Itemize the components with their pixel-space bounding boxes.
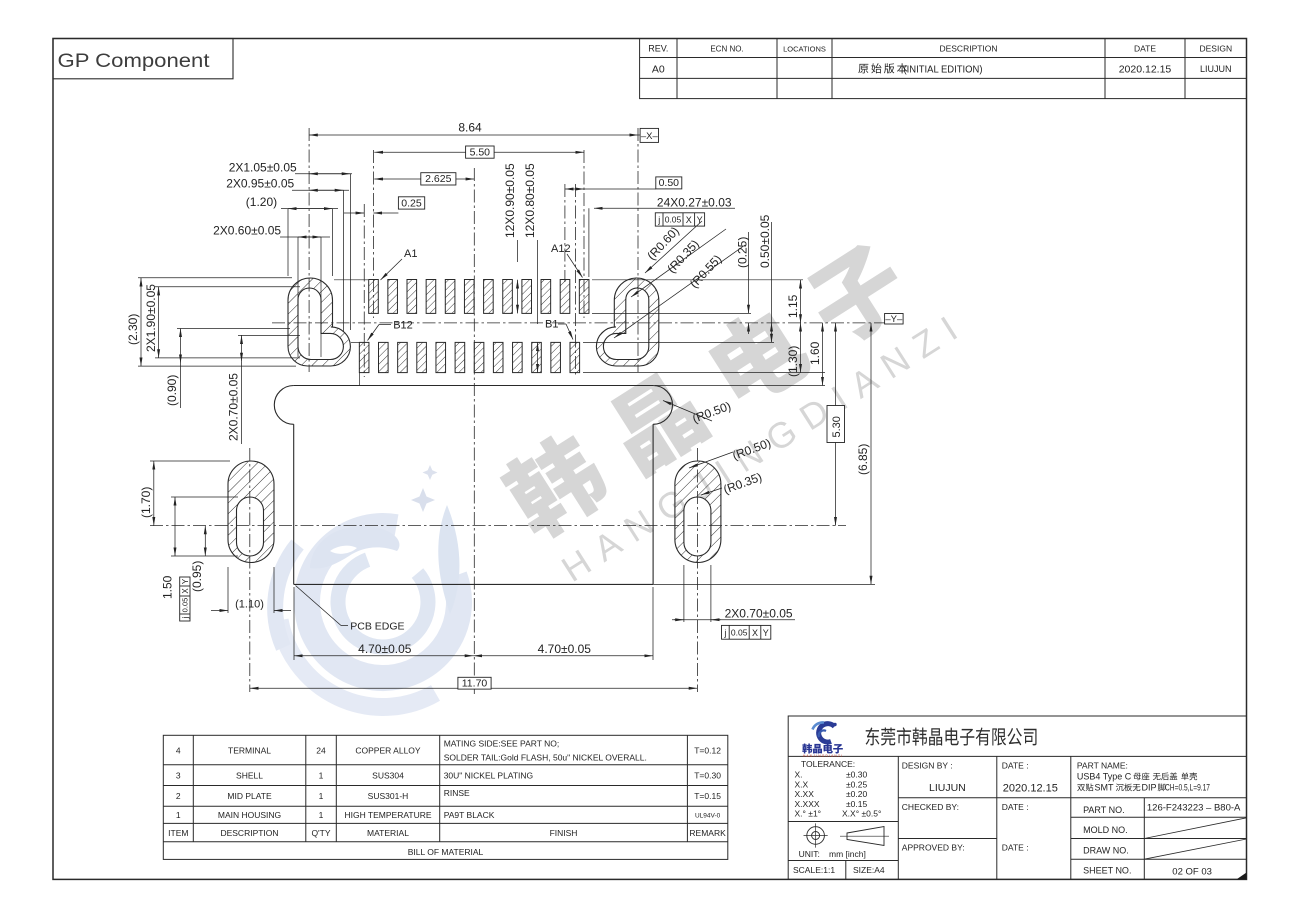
dim 0.25 pads offset [344,197,425,213]
dim 4.70 left [294,587,473,660]
dim 11.70 [250,677,698,689]
svg-text:j: j [723,628,726,638]
svg-text:SUS304: SUS304 [372,771,404,781]
svg-text:±0.25: ±0.25 [846,780,867,790]
svg-text:5.30: 5.30 [831,416,843,437]
svg-text:2X0.70±0.05: 2X0.70±0.05 [227,373,241,441]
svg-text:X: X [752,628,758,638]
svg-text:2X0.60±0.05: 2X0.60±0.05 [213,223,281,237]
svg-text:0.25: 0.25 [401,197,422,209]
pad B12 [359,342,369,372]
guide housing top ext [655,385,825,387]
feature control frame right [722,625,771,639]
svg-text:SHEET NO.: SHEET NO. [1083,866,1131,876]
leader (R0.50) bump [663,399,733,426]
svg-text:TERMINAL: TERMINAL [228,746,271,756]
pad A4 [426,280,436,314]
guide A bottom [592,312,751,314]
svg-text:X.X: X.X [795,780,809,790]
svg-text:X.: X. [795,770,803,780]
dim 2X0.95 [226,177,349,332]
pad B4 [513,342,523,372]
svg-text:DATE :: DATE : [1002,802,1029,812]
pad B10 [398,342,408,372]
svg-text:j: j [657,215,660,225]
svg-text:4.70±0.05: 4.70±0.05 [358,642,412,656]
dim 12X0.90 [503,163,518,313]
svg-text:DATE :: DATE : [1002,843,1029,853]
watermark logo flame tip [438,505,459,614]
svg-text:MID PLATE: MID PLATE [227,791,272,801]
guide B12 edge drop [358,373,360,386]
svg-text:(INITIAL EDITION): (INITIAL EDITION) [904,64,983,76]
centerline B12 [363,204,365,377]
svg-text:±0.15: ±0.15 [846,799,867,809]
guide B bottom [583,372,825,374]
dim (0.25) right [736,232,750,334]
svg-text:SUS301-H: SUS301-H [368,791,409,801]
housing bottom edge PCB cutout [294,583,653,585]
company logo small [802,722,843,758]
svg-text:(2.30): (2.30) [126,314,140,345]
shield slot right outer [596,278,658,366]
svg-text:MATING SIDE:SEE PART NO;: MATING SIDE:SEE PART NO; [444,739,560,749]
svg-text:5.50: 5.50 [470,147,491,159]
guide ext 0.60 through slot left [297,286,299,357]
pad B3 [532,342,542,372]
housing bump left R0.50 [274,386,293,425]
svg-text:2: 2 [176,791,181,801]
pad B7 [455,342,465,372]
svg-text:PART NAME:: PART NAME: [1077,761,1128,771]
leader (R0.35) leg slot [701,470,764,497]
watermark hanzi [495,233,917,546]
svg-text:DESCRIPTION: DESCRIPTION [939,44,997,54]
company name [866,727,1037,745]
svg-text:1: 1 [319,771,324,781]
svg-text:4.70±0.05: 4.70±0.05 [538,642,592,656]
pad A11 [560,280,570,314]
svg-text:24: 24 [316,746,326,756]
housing left edge [293,424,295,584]
dim 2X1.90 [144,284,300,358]
svg-text:MAIN HOUSING: MAIN HOUSING [218,810,281,820]
dim (1.10) [211,567,291,613]
svg-text:LIUJUN: LIUJUN [929,782,966,794]
svg-text:Q'TY: Q'TY [311,828,330,838]
housing right edge [652,424,654,584]
svg-text:DIP: DIP [1142,783,1157,793]
dim 0.50 right [758,214,772,342]
svg-text:2X0.70±0.05: 2X0.70±0.05 [725,607,793,621]
svg-text:(0.25): (0.25) [736,237,750,268]
pad B11 [379,342,389,372]
svg-text:(1.20): (1.20) [246,195,277,209]
svg-text:0.05: 0.05 [731,628,748,638]
dim (1.30) [786,323,801,377]
watermark logo swirl mid ring [338,560,428,647]
svg-text:A0: A0 [652,64,665,76]
mold no diagonal [1144,818,1246,839]
svg-text:j: j [181,616,190,619]
pad guide lines [298,280,825,386]
centerlines [150,128,885,694]
guide ext 0.60 through slot right [320,286,322,357]
dim 2X0.70 left [227,335,301,444]
pad B5 [493,342,503,372]
centerline vertical main [473,168,475,694]
svg-text:2X1.90±0.05: 2X1.90±0.05 [144,284,158,352]
svg-text:LIUJUN: LIUJUN [1200,64,1232,74]
dim 1.15 [786,280,801,323]
svg-text:TOLERANCE:: TOLERANCE: [801,759,855,769]
svg-text:APPROVED BY:: APPROVED BY: [902,843,965,853]
guide A top left [334,279,368,281]
centerline leg slot left [249,448,251,692]
svg-text:(1.10): (1.10) [235,599,264,611]
DIMENSIONS [126,121,903,690]
feature control frame top [655,213,704,226]
watermark logo left swoosh [275,545,297,648]
svg-text:MOLD NO.: MOLD NO. [1083,825,1128,835]
BOM table [163,735,728,859]
pad B8 [436,342,446,372]
pad B6 [474,342,484,372]
svg-text:1: 1 [319,791,324,801]
dim (2.30) [126,278,296,366]
svg-text:0.50: 0.50 [659,177,680,189]
dim 12X0.80 [523,163,538,373]
watermark logo eagle eye [330,546,357,554]
dim 1.50 [161,497,239,599]
svg-text:BILL OF MATERIAL: BILL OF MATERIAL [408,847,484,857]
svg-text:SHELL: SHELL [236,771,263,781]
svg-text:DATE :: DATE : [1002,761,1029,771]
draw no diagonal [1144,839,1246,859]
svg-text:RINSE: RINSE [444,788,470,798]
guide A top [592,279,803,281]
centerline leg slot right [696,448,698,692]
svg-text:REV.: REV. [648,44,668,54]
svg-text:DATE: DATE [1134,44,1156,54]
dim 5.50 [374,146,584,159]
svg-text:X: X [181,588,190,594]
pad A9 [522,280,532,314]
svg-text:USB4 Type C: USB4 Type C [1077,772,1132,782]
centerline A11 [564,184,566,282]
dim 2X0.60 [213,223,330,286]
svg-text:X.XX: X.XX [795,789,815,799]
revision table [640,39,1247,99]
leader (R0.60) [644,221,702,273]
leader (R0.55) [614,245,745,338]
dim (0.90) [165,329,290,409]
label A12 [551,243,583,278]
pad B1 [570,342,580,372]
svg-text:Y: Y [763,628,769,638]
title block labels [902,761,1241,878]
svg-text:–X–: –X– [641,131,659,142]
svg-text:SIZE:A4: SIZE:A4 [853,865,885,875]
svg-text:DESIGN BY :: DESIGN BY : [902,761,953,771]
dim (0.95) [190,526,205,592]
svg-text:A12: A12 [551,243,571,255]
svg-text:3: 3 [176,771,181,781]
pads row B [359,342,579,372]
pad A3 [407,280,417,314]
dim (6.85) [653,323,875,585]
watermark logo swirl outer ring [307,526,459,678]
label B1 [545,319,573,340]
dim 2.625 [374,173,474,186]
pad A10 [541,280,551,314]
pad A8 [503,280,513,314]
svg-text:0.05: 0.05 [181,598,190,613]
svg-text:UNIT:: UNIT: [799,849,820,859]
svg-text:MATERIAL: MATERIAL [367,828,409,838]
pad A12 [579,280,589,314]
svg-text:(0.95): (0.95) [190,561,204,592]
dim 2X1.05 [229,161,352,331]
datum -Y- [885,314,904,325]
feature control frame left rotated [180,577,190,621]
svg-text:24X0.27±0.03: 24X0.27±0.03 [657,196,732,210]
svg-text:REMARK: REMARK [689,828,726,838]
watermark star large [411,488,435,512]
svg-text:X.° ±1°: X.° ±1° [795,809,822,819]
svg-text:±0.30: ±0.30 [846,770,867,780]
svg-text:ECN NO.: ECN NO. [710,45,743,54]
dim (1.20) [246,195,338,276]
svg-text:4: 4 [176,746,181,756]
leg slot left inner [237,497,264,556]
svg-text:DESIGN: DESIGN [1200,44,1233,54]
pad A2 [388,280,398,314]
corner fold triangle [1237,873,1247,880]
svg-text:COPPER ALLOY: COPPER ALLOY [355,746,421,756]
svg-text:PA9T BLACK: PA9T BLACK [444,810,495,820]
projection symbol circle [804,823,828,847]
svg-text:126-F243223 – B80-A: 126-F243223 – B80-A [1147,803,1241,814]
pad B9 [417,342,427,372]
svg-text:T=0.30: T=0.30 [694,771,721,781]
svg-text:Y: Y [181,578,190,584]
svg-text:2020.12.15: 2020.12.15 [1003,783,1058,795]
dim 1.60 [808,323,823,386]
svg-text:B12: B12 [393,320,413,332]
svg-text:PART NO.: PART NO. [1083,805,1125,815]
label B12 [368,320,413,341]
centerline slot right [637,128,639,372]
projection symbol cone [840,827,889,846]
svg-text:LOCATIONS: LOCATIONS [783,45,826,54]
title box GP Component [53,39,233,79]
svg-text:8.64: 8.64 [458,121,482,135]
svg-text:±0.20: ±0.20 [846,789,867,799]
dim 24X0.27 leader [589,196,735,278]
dim 5.30 [827,323,845,526]
svg-text:1.50: 1.50 [161,575,175,599]
svg-text:(0.90): (0.90) [165,375,179,406]
pad A6 [464,280,474,314]
pads row A [369,280,589,314]
svg-text:A1: A1 [404,248,417,260]
svg-text:CH=0.5,L=9.17: CH=0.5,L=9.17 [1165,783,1210,793]
svg-text:DRAW NO.: DRAW NO. [1083,846,1129,856]
centerline Y datum [272,322,885,324]
shield slot left inner [298,288,343,360]
svg-text:T=0.12: T=0.12 [694,746,721,756]
svg-text:2.625: 2.625 [425,173,451,185]
housing bump right R0.50 [653,386,672,425]
svg-text:1: 1 [176,810,181,820]
watermark latin [554,302,974,590]
svg-text:CHECKED BY:: CHECKED BY: [902,802,959,812]
pad A5 [445,280,455,314]
leader (R0.35) [631,229,726,297]
centerline A1 [372,150,374,318]
svg-text:SCALE:1:1: SCALE:1:1 [793,865,835,875]
svg-text:SOLDER TAIL:Gold FLASH, 50u" N: SOLDER TAIL:Gold FLASH, 50u" NICKEL OVER… [444,753,647,763]
centerline B1 [575,184,577,377]
label PCB EDGE [296,586,405,633]
dim 8.64 [309,121,658,143]
svg-text:2X1.05±0.05: 2X1.05±0.05 [229,161,297,175]
svg-text:1: 1 [319,810,324,820]
svg-text:0.05: 0.05 [665,215,682,225]
pad A1 [369,280,379,314]
centerline slot left [308,128,310,372]
guide B top [583,341,774,343]
leg slot right outer [675,461,721,563]
svg-text:1.15: 1.15 [786,294,800,318]
guide B top left [351,341,359,343]
svg-text:mm [inch]: mm [inch] [829,849,866,859]
svg-text:2020.12.15: 2020.12.15 [1119,64,1172,76]
svg-text:11.70: 11.70 [462,678,488,690]
svg-text:12X0.90±0.05: 12X0.90±0.05 [503,163,517,238]
svg-text:(1.70): (1.70) [139,487,153,518]
title block [788,716,1246,879]
centerline leg slots horizontal [150,525,846,527]
leg slot right inner [684,497,711,556]
svg-text:30U" NICKEL PLATING: 30U" NICKEL PLATING [444,771,533,781]
svg-text:1.60: 1.60 [808,341,822,365]
centerline A12 [583,150,585,318]
svg-text:DESCRIPTION: DESCRIPTION [220,828,278,838]
svg-text:(6.85): (6.85) [856,444,870,475]
watermark logo eagle head [310,526,399,568]
label A1 [381,248,418,280]
watermark logo lower swoosh [280,620,436,707]
svg-text:H A N J I N G D I A N Z I: H A N J I N G D I A N Z I [803,754,842,758]
svg-text:UL94V-0: UL94V-0 [695,813,721,820]
housing top edge [294,385,653,387]
svg-text:FINISH: FINISH [550,828,578,838]
svg-text:02 OF 03: 02 OF 03 [1172,867,1212,878]
svg-text:ITEM: ITEM [168,828,188,838]
svg-text:T=0.15: T=0.15 [694,791,721,801]
pad A7 [484,280,494,314]
leader (R0.50) leg slot [689,436,773,468]
leg slot left outer [228,461,274,563]
dim 4.70 right [473,587,653,660]
dim 0.50 pitch [565,177,682,189]
svg-text:X.X° ±0.5°: X.X° ±0.5° [842,809,881,819]
shield slot right inner [603,288,648,360]
svg-text:X: X [686,215,692,225]
svg-text:2X0.95±0.05: 2X0.95±0.05 [226,177,294,191]
svg-text:B1: B1 [545,319,558,331]
tolerance block [793,759,885,875]
pad B2 [551,342,561,372]
svg-text:GP Component: GP Component [58,50,211,72]
dim (1.70) [139,461,230,526]
svg-text:X.XXX: X.XXX [795,799,820,809]
svg-text:PCB EDGE: PCB EDGE [350,621,404,633]
watermark star small [423,465,438,480]
svg-text:0.50±0.05: 0.50±0.05 [758,214,772,268]
shield slot left outer [288,278,350,366]
svg-text:12X0.80±0.05: 12X0.80±0.05 [523,163,537,238]
svg-text:–Y–: –Y– [885,314,903,325]
svg-text:SMT: SMT [1095,783,1115,793]
WATERMARK [275,233,974,707]
svg-text:HIGH TEMPERATURE: HIGH TEMPERATURE [344,810,431,820]
dim 2X0.70 right [672,565,795,622]
